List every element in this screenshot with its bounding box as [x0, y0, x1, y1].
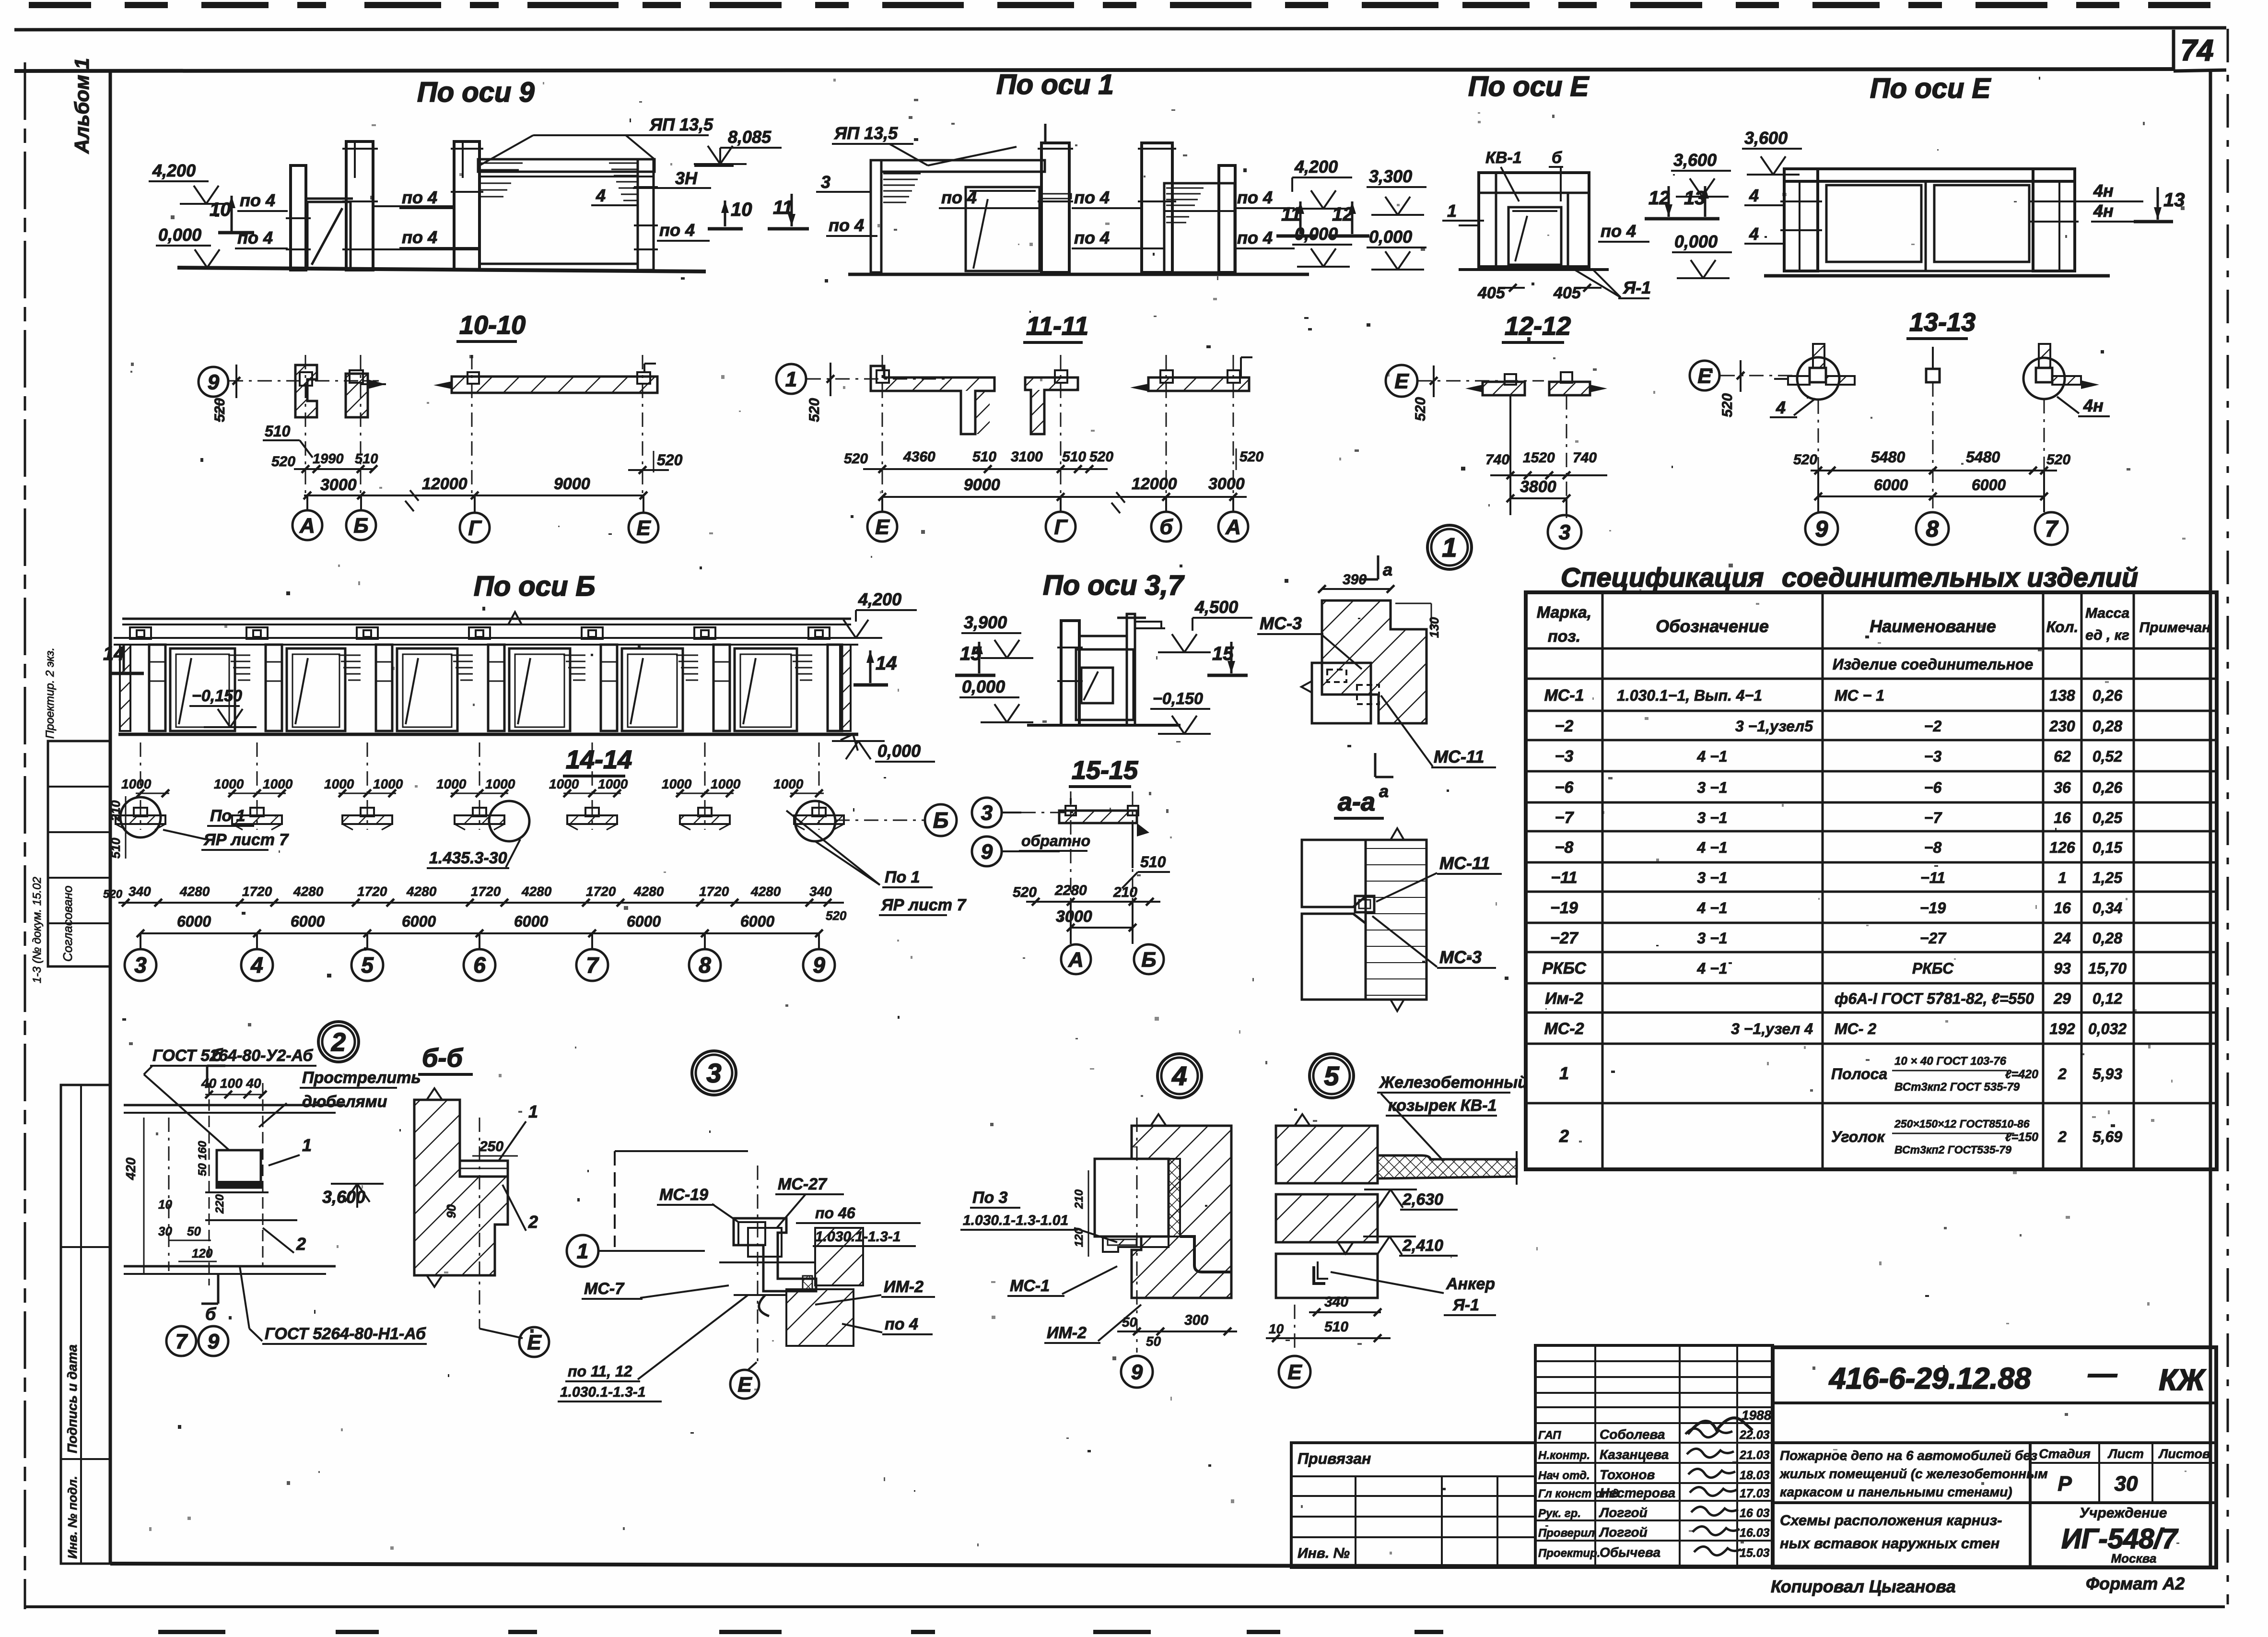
svg-text:3000: 3000 [320, 476, 357, 494]
svg-text:Логгой: Логгой [1599, 1525, 1648, 1540]
14-14 anchor at axis 6 [479, 742, 480, 830]
svg-text:62: 62 [2054, 748, 2071, 765]
svg-text:б: б [205, 1304, 217, 1324]
svg-text:1-3 (№ докум. 15.02: 1-3 (№ докум. 15.02 [31, 877, 44, 983]
svg-text:5: 5 [1324, 1061, 1339, 1091]
elev9 hatch strokes near walls [479, 163, 523, 164]
а-а section [1302, 840, 1366, 907]
svg-text:14: 14 [876, 653, 897, 674]
svg-text:2280: 2280 [1054, 883, 1087, 898]
svg-text:520: 520 [844, 451, 868, 467]
svg-text:740: 740 [1573, 450, 1597, 466]
svg-text:по 46: по 46 [815, 1204, 855, 1222]
svg-text:9: 9 [813, 953, 825, 977]
svg-text:13-13: 13-13 [1909, 308, 1976, 337]
узел 4 marker [1157, 1054, 1202, 1098]
svg-text:10: 10 [158, 1197, 172, 1212]
svg-text:МС-1: МС-1 [1544, 686, 1584, 705]
svg-text:1000: 1000 [263, 777, 293, 791]
svg-text:405: 405 [1477, 284, 1506, 302]
svg-text:3 −1: 3 −1 [1697, 809, 1727, 826]
узел1 а mark bottom [1374, 753, 1377, 777]
svg-text:Е: Е [1287, 1360, 1302, 1384]
10-10 slab [452, 377, 657, 393]
узел4 circle 9 [1121, 1356, 1153, 1388]
svg-text:2: 2 [296, 1234, 306, 1254]
svg-text:1720: 1720 [357, 884, 387, 899]
svg-text:ИМ-2: ИМ-2 [884, 1278, 924, 1296]
svg-text:8,085: 8,085 [728, 127, 772, 147]
12-12 axis circle 3 [1548, 515, 1581, 549]
svg-text:1990: 1990 [313, 451, 344, 467]
10-10 axis circles bottom [306, 495, 308, 510]
svg-text:Е: Е [737, 1373, 752, 1396]
svg-text:340: 340 [809, 884, 832, 899]
top band lines [14, 28, 2226, 30]
11-11 axis circle 1 [776, 364, 806, 394]
svg-text:14: 14 [103, 643, 125, 664]
svg-text:520: 520 [807, 398, 822, 422]
svg-text:−27: −27 [1920, 930, 1947, 947]
elev1 roof slab [881, 160, 1045, 172]
svg-text:ф6А-I ГОСТ 5781-82, ℓ=550: ф6А-I ГОСТ 5781-82, ℓ=550 [1835, 990, 2034, 1007]
svg-text:250×150×12 ГОСТ8510-86: 250×150×12 ГОСТ8510-86 [1894, 1118, 2030, 1130]
svg-text:Москва: Москва [2111, 1551, 2157, 1566]
svg-text:520: 520 [1013, 884, 1037, 900]
svg-text:КВ-1: КВ-1 [1485, 149, 1522, 167]
svg-text:по 4: по 4 [237, 228, 273, 247]
svg-text:1000: 1000 [214, 777, 244, 791]
svg-text:Проектир. 2 экз.: Проектир. 2 экз. [44, 648, 57, 739]
drawing frame [109, 71, 112, 1565]
svg-text:14-14: 14-14 [566, 745, 632, 774]
svg-text:4,200: 4,200 [858, 589, 901, 609]
svg-text:2: 2 [1559, 1126, 1569, 1146]
svg-text:0,000: 0,000 [962, 677, 1005, 696]
осьБ bay 6-7 [488, 645, 504, 731]
elev9 lintel lines [373, 205, 454, 207]
scan speckles [1387, 373, 1390, 377]
12-12 axis circle Е [1386, 365, 1417, 397]
svg-text:4280: 4280 [521, 884, 552, 899]
svg-text:10: 10 [1269, 1321, 1284, 1336]
svg-text:Е: Е [636, 516, 651, 540]
svg-text:А: А [1225, 515, 1241, 539]
осьБ bay 5-6 [376, 645, 392, 731]
elev9 left wall column [291, 165, 306, 270]
svg-text:4360: 4360 [903, 449, 935, 465]
svg-text:4280: 4280 [179, 884, 210, 899]
svg-text:Лист: Лист [2107, 1447, 2144, 1461]
left margin upper stamp strip [48, 741, 110, 966]
svg-text:ИМ-2: ИМ-2 [1047, 1324, 1087, 1342]
осьБ bay 7-8 [601, 645, 617, 731]
svg-text:По 1: По 1 [210, 807, 246, 825]
svg-text:15,70: 15,70 [2088, 960, 2127, 977]
svg-text:Соболева: Соболева [1600, 1427, 1665, 1442]
elev9 roof leader ЯП 13,5 [479, 135, 533, 165]
svg-text:3,300: 3,300 [1369, 166, 1412, 186]
svg-text:416-6-29.12.88: 416-6-29.12.88 [1828, 1362, 2031, 1395]
svg-text:7: 7 [586, 953, 599, 977]
узел3 dashed outline [614, 1151, 616, 1247]
elev9 ground line [177, 268, 706, 271]
svg-text:220: 220 [213, 1194, 226, 1214]
svg-text:Согласовано: Согласовано [60, 885, 75, 962]
svg-text:22.03: 22.03 [1739, 1428, 1770, 1442]
svg-text:обратно: обратно [1021, 832, 1090, 849]
svg-text:−11: −11 [1551, 869, 1577, 887]
elev9 hall right wall [638, 159, 654, 270]
svg-text:9: 9 [1815, 517, 1828, 542]
svg-text:Железобетонный: Железобетонный [1379, 1073, 1528, 1092]
svg-text:МС-27: МС-27 [778, 1175, 828, 1193]
svg-text:10: 10 [210, 199, 231, 220]
svg-text:50 160: 50 160 [196, 1141, 209, 1176]
svg-text:21.03: 21.03 [1739, 1449, 1770, 1462]
svg-text:Инв. №: Инв. № [1298, 1545, 1350, 1561]
svg-text:Копировал Цыганова: Копировал Цыганова [1771, 1577, 1956, 1596]
elevE2 doors [1826, 185, 1921, 262]
svg-text:Анкер: Анкер [1446, 1275, 1495, 1293]
svg-text:жилых помещений (с железобетон: жилых помещений (с железобетонным [1779, 1466, 2048, 1481]
svg-text:3 −1,узел 4: 3 −1,узел 4 [1731, 1020, 1813, 1037]
svg-text:Е: Е [1394, 369, 1409, 393]
elev1 ground line [848, 273, 1309, 276]
svg-text:10-10: 10-10 [459, 311, 526, 340]
svg-text:8: 8 [1926, 517, 1939, 542]
svg-text:9000: 9000 [554, 475, 590, 493]
elev1 right end column [1219, 165, 1235, 272]
svg-text:510: 510 [108, 837, 123, 859]
svg-text:Прострелить: Прострелить [302, 1069, 421, 1087]
svg-text:Листов: Листов [2158, 1447, 2210, 1461]
svg-text:По оси 9: По оси 9 [417, 77, 535, 108]
svg-text:29: 29 [2053, 990, 2071, 1007]
svg-text:0,26: 0,26 [2093, 779, 2122, 796]
svg-text:1000: 1000 [711, 777, 741, 791]
svg-text:12000: 12000 [1132, 475, 1177, 493]
svg-text:РКБС: РКБС [1912, 960, 1954, 977]
svg-text:МС-11: МС-11 [1439, 853, 1490, 873]
узел2 main detail [124, 1104, 345, 1107]
svg-text:1: 1 [2058, 869, 2067, 886]
svg-text:420: 420 [123, 1157, 138, 1180]
svg-text:Проверил: Проверил [1538, 1527, 1595, 1540]
svg-text:4 −1: 4 −1 [1696, 748, 1727, 765]
узел4 bottom bracket [1103, 1237, 1169, 1252]
svg-text:1.030.1−1, Вып. 4−1: 1.030.1−1, Вып. 4−1 [1617, 687, 1762, 704]
svg-text:1000: 1000 [121, 777, 152, 791]
узел5 wall blocks [1276, 1126, 1378, 1183]
svg-text:9: 9 [208, 370, 220, 394]
title block: signature table [1535, 1345, 1773, 1567]
svg-text:520: 520 [1413, 397, 1428, 421]
13-13 col detail 2 (circled) [2023, 358, 2065, 399]
осьБ axis circles 3-9 [140, 933, 141, 949]
svg-text:93: 93 [2054, 960, 2071, 977]
svg-text:0,032: 0,032 [2088, 1020, 2127, 1037]
svg-text:а-а: а-а [1338, 788, 1375, 816]
svg-text:Н.контр.: Н.контр. [1538, 1449, 1590, 1462]
svg-text:405: 405 [1553, 284, 1581, 302]
svg-text:Е: Е [1697, 364, 1712, 388]
svg-text:1: 1 [785, 367, 797, 391]
sheet outer border [24, 62, 26, 1609]
elev1 inner door [966, 187, 1040, 271]
svg-text:4,500: 4,500 [1194, 597, 1238, 617]
svg-text:3 −1: 3 −1 [1697, 869, 1727, 886]
svg-text:210: 210 [1073, 1189, 1086, 1209]
14-14 anchor at axis 4 [257, 742, 258, 830]
svg-text:1: 1 [1559, 1063, 1569, 1083]
svg-text:10 × 40 ГОСТ 103-76: 10 × 40 ГОСТ 103-76 [1894, 1055, 2007, 1068]
svg-text:520: 520 [1089, 449, 1113, 465]
svg-text:3Н: 3Н [675, 168, 698, 188]
svg-text:Им-2: Им-2 [1545, 989, 1583, 1008]
14-14 detail circles [120, 797, 161, 837]
svg-text:15-15: 15-15 [1072, 756, 1138, 785]
svg-text:3 −1,узел5: 3 −1,узел5 [1735, 718, 1813, 735]
svg-text:3 −1: 3 −1 [1697, 930, 1727, 947]
elevE2 left wall [1784, 169, 1818, 271]
svg-text:90: 90 [444, 1204, 458, 1218]
svg-text:11-11: 11-11 [1026, 312, 1088, 341]
svg-text:1,25: 1,25 [2093, 869, 2123, 886]
svg-text:3,600: 3,600 [1673, 150, 1717, 170]
svg-text:Масса: Масса [2085, 605, 2129, 621]
svg-text:0,52: 0,52 [2093, 748, 2122, 765]
svg-text:250: 250 [479, 1139, 503, 1154]
svg-text:Инв. № подл.: Инв. № подл. [65, 1476, 80, 1559]
svg-text:А: А [299, 514, 315, 537]
svg-text:Г: Г [1054, 515, 1068, 539]
10-10 wall piece 1 [295, 365, 317, 417]
svg-text:−7: −7 [1555, 809, 1575, 827]
узел 1 marker circle [1427, 525, 1472, 569]
svg-text:−2: −2 [1555, 717, 1574, 735]
elevE2 floor [1784, 270, 2075, 272]
svg-text:9: 9 [1131, 1360, 1143, 1384]
svg-text:40 100 40: 40 100 40 [201, 1076, 261, 1091]
svg-text:3,600: 3,600 [1744, 128, 1788, 148]
svg-text:Обычева: Обычева [1600, 1545, 1660, 1560]
svg-text:Схемы расположения карниз-: Схемы расположения карниз- [1780, 1512, 2002, 1529]
svg-text:−2: −2 [1924, 718, 1942, 735]
svg-text:1000: 1000 [485, 777, 515, 791]
svg-text:230: 230 [2049, 718, 2075, 735]
осьБ end walls [120, 645, 130, 731]
узел3 circle 1 [567, 1235, 598, 1267]
svg-text:4280: 4280 [750, 884, 781, 899]
svg-text:Б: Б [1141, 948, 1156, 971]
svg-text:18.03: 18.03 [1740, 1469, 1770, 1482]
svg-text:4,200: 4,200 [152, 161, 196, 180]
svg-text:Наименование: Наименование [1870, 616, 1996, 636]
svg-text:510: 510 [355, 451, 378, 467]
15-15 circles 3 9 [972, 798, 1002, 827]
14-14 anchor at axis 5 [367, 742, 368, 830]
svg-text:1000: 1000 [773, 777, 804, 791]
svg-text:Спецификация: Спецификация [1561, 562, 1764, 592]
svg-text:6000: 6000 [1972, 476, 2006, 494]
svg-text:0,28: 0,28 [2093, 718, 2122, 735]
svg-text:4 −1: 4 −1 [1696, 899, 1727, 917]
svg-text:Привязан: Привязан [1298, 1450, 1371, 1467]
svg-text:6000: 6000 [291, 913, 325, 930]
14-14 anchor at axis 9 [818, 742, 820, 830]
svg-text:5,93: 5,93 [2093, 1065, 2122, 1083]
svg-text:ВСт3кп2 ГОСТ 535-79: ВСт3кп2 ГОСТ 535-79 [1894, 1081, 2020, 1094]
узел3 circle Е [730, 1370, 759, 1399]
svg-text:5,69: 5,69 [2093, 1128, 2122, 1145]
svg-text:МС-3: МС-3 [1439, 947, 1482, 967]
узел5 canopy slab [1378, 1155, 1517, 1178]
svg-text:РКБС: РКБС [1542, 959, 1586, 977]
svg-text:12: 12 [1332, 204, 1354, 225]
svg-text:Кол.: Кол. [2046, 618, 2079, 636]
svg-text:МС-1: МС-1 [1010, 1277, 1050, 1295]
svg-text:−3: −3 [1924, 748, 1942, 765]
svg-text:1720: 1720 [242, 884, 272, 899]
svg-text:520: 520 [1239, 449, 1263, 465]
15-15 circles А Б [1061, 944, 1091, 974]
svg-text:Е: Е [527, 1331, 542, 1354]
svg-text:Я-1: Я-1 [1623, 278, 1651, 297]
svg-text:520: 520 [657, 451, 683, 469]
svg-text:4: 4 [1776, 398, 1786, 417]
svg-text:4 −1: 4 −1 [1696, 839, 1727, 856]
svg-text:соединительных изделий: соединительных изделий [1782, 562, 2138, 592]
svg-text:4н: 4н [2093, 201, 2114, 221]
svg-text:7: 7 [175, 1330, 188, 1353]
узел5 anchor [1314, 1266, 1325, 1284]
svg-text:по 4: по 4 [1074, 228, 1110, 247]
svg-text:По оси Б: По оси Б [474, 571, 596, 602]
11-11 wall right [1148, 377, 1249, 391]
svg-text:6000: 6000 [627, 913, 661, 930]
svg-text:0,15: 0,15 [2093, 839, 2123, 856]
svg-text:30: 30 [158, 1224, 172, 1238]
svg-text:340: 340 [129, 884, 151, 899]
svg-text:дюбелями: дюбелями [302, 1093, 387, 1111]
svg-text:520: 520 [271, 454, 295, 470]
svg-text:−19: −19 [1920, 899, 1946, 917]
svg-text:4 −1: 4 −1 [1696, 960, 1727, 977]
svg-text:510: 510 [972, 449, 996, 465]
svg-text:Примечан: Примечан [2139, 620, 2211, 636]
svg-text:6000: 6000 [514, 913, 548, 930]
svg-text:3000: 3000 [1056, 907, 1092, 926]
title block: main stamp [1773, 1347, 2216, 1567]
svg-text:4280: 4280 [633, 884, 664, 899]
svg-text:Я-1: Я-1 [1452, 1296, 1479, 1314]
svg-text:4: 4 [1749, 224, 1759, 244]
svg-text:по 4: по 4 [402, 227, 437, 247]
svg-text:11: 11 [1281, 204, 1301, 225]
svg-text:1000: 1000 [436, 777, 467, 791]
svg-text:Нач отд.: Нач отд. [1538, 1469, 1590, 1482]
svg-text:−6: −6 [1555, 778, 1574, 797]
svg-text:510: 510 [1324, 1319, 1348, 1335]
svg-text:Марка,: Марка, [1537, 603, 1591, 622]
svg-text:−3: −3 [1555, 747, 1574, 766]
page number box 74 [2172, 30, 2175, 71]
svg-text:210: 210 [108, 800, 123, 822]
svg-text:1000: 1000 [662, 777, 692, 791]
14-14 anchor at axis 8 [704, 742, 706, 830]
svg-text:510: 510 [265, 423, 291, 440]
svg-text:по 4: по 4 [1237, 188, 1273, 207]
ось3.7 structure [1027, 724, 1181, 727]
svg-text:120: 120 [1073, 1227, 1086, 1247]
svg-text:5480: 5480 [1966, 448, 2000, 466]
svg-text:192: 192 [2049, 1020, 2075, 1037]
svg-text:50: 50 [1122, 1315, 1137, 1330]
elev1 right wall w hatch [1164, 183, 1235, 272]
svg-text:3: 3 [1559, 520, 1570, 544]
14-14 anchor at axis 7 [592, 742, 593, 830]
svg-text:138: 138 [2049, 687, 2075, 704]
svg-text:а: а [1379, 781, 1389, 801]
14-14 left 510/210 vert dims [108, 800, 123, 822]
svg-text:36: 36 [2054, 779, 2071, 796]
svg-text:по 4: по 4 [1074, 188, 1110, 207]
svg-text:3: 3 [821, 172, 830, 192]
svg-text:ℓ=150: ℓ=150 [2005, 1131, 2038, 1144]
svg-text:520: 520 [1719, 393, 1735, 417]
узел1 panel below [1312, 663, 1371, 723]
svg-text:4: 4 [250, 953, 263, 977]
svg-text:0,000: 0,000 [158, 225, 201, 245]
svg-text:1: 1 [1447, 201, 1457, 221]
svg-text:0,25: 0,25 [2093, 809, 2123, 826]
svg-text:340: 340 [1324, 1294, 1348, 1310]
svg-text:Пожарное депо на 6 автомобилей: Пожарное депо на 6 автомобилей без [1780, 1448, 2037, 1463]
title block: attachment table [1291, 1443, 1535, 1567]
svg-text:520: 520 [826, 908, 847, 923]
svg-text:а: а [1383, 560, 1392, 579]
svg-text:1988: 1988 [1742, 1408, 1772, 1423]
svg-text:1: 1 [528, 1102, 538, 1121]
svg-text:1000: 1000 [598, 777, 628, 791]
14-14 anchor at axis 3 [140, 742, 141, 830]
10-10 wall piece 2 [346, 374, 368, 417]
svg-text:3000: 3000 [1208, 475, 1245, 493]
svg-text:по 4: по 4 [1601, 221, 1636, 241]
узел 5 marker [1309, 1054, 1354, 1098]
svg-text:Рук. гр.: Рук. гр. [1538, 1507, 1581, 1520]
svg-text:120: 120 [192, 1246, 213, 1260]
svg-text:6000: 6000 [740, 913, 774, 930]
svg-text:5: 5 [361, 953, 374, 977]
осьБ circle Б right [925, 804, 957, 836]
svg-text:Логгой: Логгой [1599, 1505, 1648, 1520]
album vertical label [70, 58, 93, 154]
svg-text:17.03: 17.03 [1740, 1487, 1770, 1500]
svg-text:Б: Б [933, 808, 949, 833]
elevE2 right wall [2033, 169, 2075, 271]
svg-text:24: 24 [2053, 930, 2071, 947]
svg-text:МС-19: МС-19 [659, 1186, 708, 1204]
svg-text:1000: 1000 [549, 777, 579, 791]
svg-text:9: 9 [208, 1330, 220, 1353]
svg-text:12-12: 12-12 [1505, 312, 1571, 341]
svg-text:Учреждение: Учреждение [2080, 1505, 2167, 1521]
svg-text:—: — [2088, 1357, 2117, 1390]
svg-text:1.435.3-30: 1.435.3-30 [429, 849, 507, 867]
svg-text:Альбом 1: Альбом 1 [70, 58, 93, 154]
